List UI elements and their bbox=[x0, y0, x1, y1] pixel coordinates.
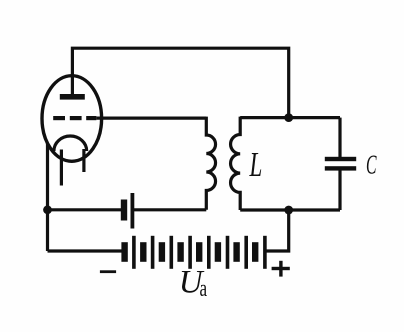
svg-text:C: C bbox=[366, 149, 377, 179]
svg-text:a: a bbox=[200, 276, 208, 302]
svg-text:L: L bbox=[249, 145, 262, 184]
